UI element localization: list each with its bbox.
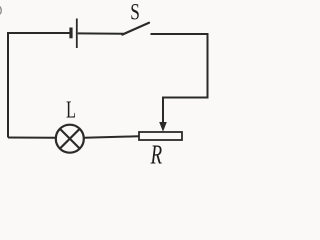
lamp L circle [56,125,84,153]
battery B1 positive plate (long thin) [76,19,78,49]
wire: top-left from corner to battery [8,33,70,138]
wire: bottom-left corner to lamp [8,137,56,139]
battery B1 negative plate (short thick) [69,28,72,39]
svg-text:L: L [66,97,76,123]
switch S lever (open) [122,23,149,35]
wire: lamp to rheostat [84,136,139,138]
scan artifact (cut-off glyph at left edge) [0,7,1,15]
lamp L cross (X) [60,129,79,148]
arrowhead of rheostat wiper [159,122,167,132]
rheostat R body (rectangle) [139,132,182,140]
svg-text:R: R [150,140,163,170]
svg-text:S: S [130,0,140,25]
wire: battery to switch [78,32,124,34]
wire: switch to top-right corner, down right side [151,34,208,126]
